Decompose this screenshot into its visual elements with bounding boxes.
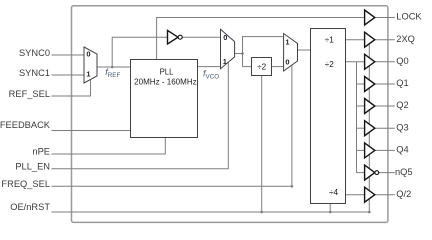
divider bank U5 (divide-by-1 / divide-by-2 / divide-by-4) [311, 29, 346, 204]
node bypass mux output junction [241, 52, 244, 55]
svg-text:OE/nRST: OE/nRST [10, 202, 50, 212]
buffer B6 Q3 [365, 121, 375, 136]
wire distribution rail Q1-nQ5 [356, 62, 358, 173]
op block PLL 20MHz-160MHz [131, 60, 198, 138]
wire OE/nRST riser to divider bank [329, 203, 331, 212]
wire FREQ_SEL input to divide mux select [52, 66, 292, 187]
svg-text:PLL_EN: PLL_EN [15, 161, 50, 171]
wire divide-by-2 output to Q0 buffer [345, 61, 364, 63]
svg-text:SYNC1: SYNC1 [19, 68, 50, 78]
svg-text:FREQ_SEL: FREQ_SEL [1, 179, 50, 189]
svg-text:1: 1 [223, 57, 227, 66]
wire fREF from reference mux to PLL [97, 66, 131, 68]
wire LOCK from PLL top to LOCK buffer [157, 18, 365, 60]
outer device boundary box [72, 6, 388, 223]
buffer B8 nQ5 inverting [365, 165, 375, 180]
wire output-enable rail through output buffers [368, 44, 370, 213]
buffer B7 Q4 [365, 143, 375, 158]
wire fVCO from PLL to bypass mux input 1 [198, 66, 221, 68]
wire stub to nQ5 buffer [357, 172, 365, 174]
wire stub to Q2 buffer [357, 105, 365, 107]
svg-text:Q1: Q1 [396, 78, 408, 88]
buffer B4 Q1 [365, 77, 375, 92]
svg-text:2XQ: 2XQ [396, 34, 415, 44]
svg-text:LOCK: LOCK [396, 12, 422, 22]
wire divide-by-2 output to divide mux input 0 [272, 66, 284, 68]
wire divide-by-1 output to 2XQ buffer [345, 39, 364, 41]
svg-text:0: 0 [223, 33, 227, 42]
svg-text:Q/2: Q/2 [396, 189, 411, 199]
buffer B9 Q/2 [365, 187, 375, 202]
node OE tee at divider bank [329, 211, 332, 214]
svg-text:1: 1 [285, 38, 289, 47]
wire LOCK output [375, 17, 395, 19]
divider U3 divide-by-2 prescaler [252, 58, 272, 76]
svg-text:FEEDBACK: FEEDBACK [0, 120, 51, 130]
node fREF junction [111, 66, 114, 69]
wire stub to Q1 buffer [357, 83, 365, 85]
mux U4 frequency select [284, 34, 298, 72]
svg-text:Q3: Q3 [396, 122, 408, 132]
wire divide-by-4 output to Q/2 buffer [345, 194, 364, 196]
svg-text:nPE: nPE [32, 147, 50, 157]
buffer B2 2XQ [365, 32, 375, 47]
node FREQ_SEL riser endpoint [291, 185, 294, 188]
buffer B1 LOCK [365, 10, 375, 25]
buffer B5 Q2 [365, 99, 375, 114]
wire Q/2 output [375, 194, 395, 196]
svg-text:Q0: Q0 [396, 56, 408, 66]
svg-text:1: 1 [86, 70, 90, 79]
wire into divide-by-2 block [243, 66, 252, 68]
svg-text:÷4: ÷4 [329, 188, 338, 197]
svg-text:0: 0 [285, 58, 289, 67]
svg-text:20MHz - 160MHz: 20MHz - 160MHz [134, 76, 197, 86]
mux U2 PLL bypass select [221, 29, 235, 68]
node OE tee at divide-by-2 riser [260, 211, 263, 214]
svg-text:÷2: ÷2 [325, 60, 334, 69]
wire stub to Q3 buffer [357, 127, 365, 129]
node OE corner at buffer rail [368, 211, 371, 214]
wire Q2 output [375, 105, 395, 107]
svg-text:Q4: Q4 [396, 145, 408, 155]
wire divide mux output to divider bank [298, 49, 312, 51]
svg-text:Q2: Q2 [396, 100, 408, 110]
wire Q1 output [375, 83, 395, 85]
inverter G1 (PLL bypass path) [168, 30, 179, 44]
svg-text:÷1: ÷1 [325, 36, 334, 45]
svg-text:nQ5: nQ5 [395, 167, 413, 177]
svg-text:0: 0 [86, 50, 90, 59]
wire Q3 output [375, 127, 395, 129]
wire Q0 output [375, 61, 395, 63]
wire REF_SEL input to reference mux select [52, 79, 91, 96]
wire nQ5 output [379, 172, 395, 174]
mux U1 reference select (SYNC0/SYNC1) [84, 47, 97, 83]
wire OE/nRST input [52, 211, 370, 213]
wire OE/nRST riser to divide-by-2 block [261, 76, 263, 212]
wire Q4 output [375, 149, 395, 151]
wire stub to Q4 buffer [357, 149, 365, 151]
wire SYNC1 input [52, 74, 85, 76]
wire bypass mux output [235, 53, 243, 55]
wire FEEDBACK input to PLL [52, 130, 132, 132]
wire nPE input to PLL bottom [52, 138, 166, 154]
svg-text:REF_SEL: REF_SEL [9, 89, 50, 99]
wire PLL_EN input to bypass mux select [52, 62, 229, 169]
buffer B3 Q0 [365, 54, 375, 69]
svg-text:SYNC0: SYNC0 [19, 48, 50, 58]
wire 2XQ output [375, 39, 395, 41]
wire riser to divide mux input 1 [243, 37, 284, 67]
wire fREF riser to inverter input [112, 37, 167, 67]
wire SYNC0 input [52, 54, 85, 56]
svg-text:÷2: ÷2 [257, 63, 266, 72]
wire inverter output to bypass mux input 0 [182, 36, 220, 38]
svg-text:PLL: PLL [160, 67, 174, 77]
